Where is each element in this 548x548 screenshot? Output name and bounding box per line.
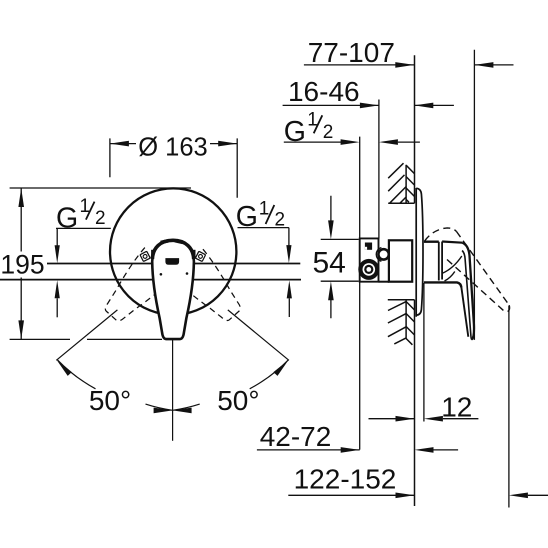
svg-text:50°: 50° bbox=[217, 385, 259, 416]
50deg extension line left bbox=[56, 310, 117, 360]
svg-text:122-152: 122-152 bbox=[294, 463, 397, 494]
svg-text:2: 2 bbox=[95, 208, 106, 229]
svg-text:195: 195 bbox=[0, 250, 44, 280]
side tab left bbox=[151, 250, 153, 258]
50deg arc left bbox=[58, 360, 173, 410]
handle cap top edge bbox=[424, 240, 439, 242]
vertical line escutcheon front plane bbox=[423, 283, 425, 422]
G 1/2 left leader bbox=[56, 228, 111, 246]
supply pipe bottom line bbox=[0, 279, 301, 281]
indicator tick left on dome bbox=[160, 239, 169, 244]
mixer lever front view bbox=[152, 240, 194, 339]
vertical line body left edge extended bbox=[359, 137, 361, 450]
lever dome thick arc bbox=[152, 240, 193, 259]
clip square bbox=[365, 243, 372, 250]
wall face line bbox=[414, 55, 416, 506]
small arc left of ring bbox=[376, 248, 381, 262]
svg-text:77-107: 77-107 bbox=[308, 37, 395, 68]
small union ring bbox=[378, 249, 388, 259]
handle blade inner edge bbox=[462, 251, 472, 340]
svg-text:G: G bbox=[56, 202, 78, 234]
dimension 195 bottom extension line bbox=[10, 338, 162, 340]
cap joint channel bbox=[439, 242, 442, 281]
side tab right bbox=[193, 250, 195, 258]
handle blade outer edge bbox=[462, 243, 474, 340]
escutcheon side back line bbox=[415, 188, 417, 317]
dimension D163 extension lines bbox=[110, 138, 237, 197]
union nut side bbox=[358, 259, 379, 280]
valve connection block bbox=[360, 238, 379, 281]
wall hatch upper bbox=[388, 163, 414, 203]
dimension D163 line bbox=[110, 143, 237, 145]
50deg extension line right bbox=[228, 310, 289, 360]
dimension 54 arrows bbox=[330, 196, 332, 319]
dimension 195 line bbox=[20, 188, 22, 339]
dimension 54 extension lines bbox=[321, 239, 359, 281]
supply pipe top line bbox=[47, 263, 300, 265]
screw symbol left bbox=[140, 251, 150, 261]
svg-text:2: 2 bbox=[323, 122, 334, 143]
svg-text:54: 54 bbox=[313, 246, 346, 279]
handle underside bbox=[424, 282, 462, 287]
G 1/2 right leader bbox=[238, 228, 289, 246]
svg-text:12: 12 bbox=[441, 392, 472, 423]
handle blade left edge bbox=[461, 288, 468, 337]
svg-text:1: 1 bbox=[259, 198, 270, 219]
handle top edge bbox=[442, 242, 462, 243]
svg-text:16-46: 16-46 bbox=[288, 76, 360, 107]
svg-text:G: G bbox=[284, 116, 306, 148]
svg-text:G: G bbox=[236, 201, 258, 233]
dimension 195 top extension line bbox=[10, 187, 191, 189]
vertical line handle tip plane bbox=[473, 50, 475, 340]
dot left on lever bbox=[160, 273, 163, 276]
dashed handle raised position bbox=[425, 228, 510, 312]
dashed lever rotated left 50 deg bbox=[170, 247, 250, 329]
screw symbol right bbox=[195, 251, 205, 261]
wall hatch lower bbox=[388, 300, 415, 345]
svg-text:Ø 163: Ø 163 bbox=[138, 133, 207, 161]
handle grip arcs bbox=[442, 256, 462, 281]
svg-text:42-72: 42-72 bbox=[260, 421, 332, 452]
vertical line handle raised tip plane bbox=[508, 306, 510, 508]
centerline below lever bbox=[172, 340, 174, 441]
cartridge housing box bbox=[389, 240, 412, 281]
svg-text:50°: 50° bbox=[89, 385, 131, 416]
escutcheon side profile bbox=[416, 188, 423, 315]
50deg arc right bbox=[173, 360, 289, 410]
logo bar on lever bbox=[165, 258, 179, 265]
valve bottom edge across gap bbox=[379, 281, 389, 283]
indicator tick right on dome bbox=[174, 239, 183, 244]
vertical line connection plane bbox=[378, 100, 380, 239]
dashed lever rotated right 50 deg bbox=[96, 248, 176, 330]
dot right on lever bbox=[186, 272, 189, 275]
escutcheon circle front view bbox=[110, 188, 236, 314]
